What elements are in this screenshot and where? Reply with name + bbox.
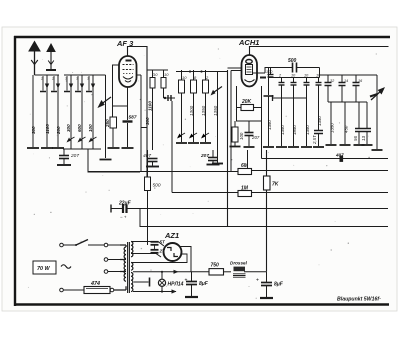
osc rail — [268, 77, 320, 79]
resistor 7K vertical — [264, 176, 279, 190]
grid wire vertical to ACH1 — [227, 70, 229, 227]
switch contact S1b stub — [51, 76, 57, 92]
AF3 top cap grid wire — [128, 47, 148, 178]
detector bus y160 — [262, 153, 389, 162]
svg-text:14: 14 — [344, 79, 348, 83]
smoothing cap 8uF first — [185, 272, 209, 297]
terminal tap top — [104, 243, 108, 247]
trimmer cap mid — [164, 95, 176, 101]
resistor box R IF2 — [188, 70, 206, 143]
capacitor 207 cathode — [244, 121, 260, 147]
svg-text:300: 300 — [66, 124, 71, 132]
svg-text:+: + — [185, 278, 188, 284]
svg-text:10: 10 — [153, 72, 158, 77]
link bracket left pair — [141, 127, 147, 129]
antenna arrow A1 — [29, 42, 40, 76]
osc section line with tuning arrow — [211, 72, 224, 164]
switch contact S2b stub — [75, 76, 81, 92]
capacitor 5T — [151, 240, 165, 245]
svg-text:22μF: 22μF — [118, 201, 132, 207]
bus y209 with 22uF — [111, 201, 388, 220]
AZ1 filament return loop — [131, 254, 187, 263]
svg-text:20K: 20K — [241, 99, 252, 105]
svg-text:207: 207 — [251, 135, 260, 140]
terminal tap mid2 — [104, 270, 108, 274]
svg-text:1350: 1350 — [305, 125, 310, 135]
link bar top right — [328, 101, 367, 103]
tube AF3 envelope — [119, 56, 137, 87]
ACH1 anode bar — [253, 72, 266, 74]
switch contact S1a stub — [40, 76, 46, 92]
svg-text:1850: 1850 — [292, 125, 297, 135]
HV wire to AZ1 plate 1 — [131, 242, 164, 247]
svg-text:+: + — [256, 278, 259, 284]
ACH1 top cap wire to top bus — [250, 47, 389, 56]
resistor box R IF1 — [176, 70, 194, 143]
cap 2,5T column — [312, 85, 324, 147]
resistor box R10b — [161, 70, 169, 98]
filament centre tap ground — [134, 278, 150, 287]
switch contact S2c stub — [86, 76, 92, 92]
frame border left — [14, 36, 16, 306]
transformer HV secondary — [131, 242, 133, 257]
HT line — [133, 271, 209, 273]
resistor 20K — [237, 86, 262, 159]
coil L3 200 with contact arrow — [52, 75, 64, 148]
wire from left block down to AVC bus — [88, 149, 140, 172]
coil 1350 c — [301, 98, 312, 147]
resistor R 250 — [105, 106, 120, 148]
coil L2 1100 with contact arrow — [41, 75, 53, 148]
svg-text:587: 587 — [129, 115, 137, 121]
transformer winding mid — [131, 263, 133, 271]
mains box 70W — [33, 261, 71, 274]
svg-text:2,5T: 2,5T — [312, 135, 317, 145]
capacitor C 207 left — [57, 149, 79, 165]
coil L6 100 with contact arrow — [88, 75, 97, 149]
IF transformer rail after AF3 — [147, 69, 168, 71]
svg-text:Blaupunkt 5W16f·: Blaupunkt 5W16f· — [337, 297, 381, 303]
svg-text:300: 300 — [31, 126, 36, 134]
svg-text:207: 207 — [200, 153, 209, 159]
svg-text:10: 10 — [164, 72, 169, 77]
svg-text:250: 250 — [105, 119, 110, 128]
resistor 500 vertical — [145, 150, 161, 245]
tuning line with arrow T4 — [99, 75, 112, 160]
svg-text:500: 500 — [288, 58, 297, 64]
power transformer core — [128, 242, 130, 293]
svg-text:7K: 7K — [272, 182, 279, 188]
mains switch — [64, 240, 105, 247]
svg-text:ACH1: ACH1 — [238, 38, 259, 47]
resistor 474 (barretter) — [64, 281, 111, 294]
scan speckle noise — [28, 48, 377, 298]
svg-text:100: 100 — [266, 70, 273, 74]
AF3 anode pin wire — [137, 74, 142, 76]
terminal tap mid1 — [104, 258, 108, 262]
svg-text:70 W: 70 W — [37, 266, 50, 272]
cap 13 column — [361, 102, 373, 145]
AZ1 cathode wire to HT — [181, 247, 192, 272]
mains terminal lower — [60, 288, 64, 292]
choke Drossel — [230, 261, 267, 278]
frame border bottom — [14, 303, 389, 306]
svg-text:5T: 5T — [160, 240, 165, 245]
wire to AVC corner — [171, 101, 173, 193]
trimmer line right — [372, 75, 383, 150]
IF rail 2 — [176, 71, 228, 73]
padder cap 16 — [353, 75, 364, 102]
cap line 1350 a — [263, 68, 274, 148]
svg-text:1100: 1100 — [148, 101, 153, 111]
svg-text:300: 300 — [145, 117, 150, 125]
capacitor C 407 — [143, 153, 159, 167]
tube ACH1 envelope — [242, 55, 258, 87]
long vertical B+ feed — [266, 150, 268, 176]
resistor box R10a — [150, 70, 158, 150]
bus y192 with resistor 1M — [172, 186, 388, 197]
capacitor C 587 — [122, 106, 137, 148]
wire rail band-switch section 2 — [64, 74, 106, 76]
svg-text:1100: 1100 — [45, 124, 50, 134]
capacitor C 207 mid — [200, 150, 220, 165]
svg-text:Drossel: Drossel — [230, 261, 248, 266]
svg-text:10: 10 — [182, 75, 187, 80]
tuning arrow right — [370, 88, 384, 100]
antenna arrow A2 (earth/aux) — [46, 44, 56, 70]
osc stub c10c — [316, 74, 322, 86]
coil 1350 b — [276, 98, 287, 147]
svg-text:8μF: 8μF — [199, 281, 209, 287]
svg-text:1350: 1350 — [280, 125, 285, 135]
osc stub c2 — [278, 74, 285, 99]
wire rail band-switch section 1 — [35, 74, 60, 76]
svg-text:207: 207 — [70, 153, 79, 159]
svg-text:200: 200 — [56, 126, 61, 135]
svg-text:56: 56 — [353, 136, 358, 141]
osc stub c10a — [291, 74, 297, 99]
bus y226 — [140, 209, 388, 227]
svg-text:− +: − + — [120, 215, 127, 220]
coil L1 300 — [27, 75, 39, 148]
coil 450 — [340, 102, 351, 145]
tube AZ1 envelope — [164, 243, 182, 261]
wire ACH1 anode to detector line — [230, 71, 232, 172]
wire to transformer primary top — [108, 244, 120, 246]
resistor 750 — [209, 263, 231, 276]
osc link bar — [273, 95, 307, 101]
ACH1 cathode network wire — [237, 108, 262, 122]
corner down to osc rail — [319, 68, 321, 78]
top-right rail — [320, 74, 378, 76]
mains terminal upper — [60, 243, 64, 247]
svg-text:750: 750 — [211, 263, 220, 269]
svg-text:1350: 1350 — [317, 116, 322, 126]
series capacitor 500 — [265, 58, 320, 73]
svg-text:100: 100 — [88, 124, 93, 132]
svg-text:8μF: 8μF — [274, 282, 284, 288]
padder cap 32 — [325, 75, 336, 102]
smoothing cap 8uF second — [256, 272, 284, 298]
osc stub c10b — [304, 74, 310, 99]
svg-text:600: 600 — [77, 124, 82, 132]
AF3 cathode pin wire — [113, 87, 128, 106]
AVC bus y171 with resistor 6M — [88, 163, 388, 175]
padder cap 14 — [339, 75, 349, 102]
svg-text:500: 500 — [153, 183, 161, 189]
svg-text:AZ1: AZ1 — [164, 231, 179, 240]
ACH1 grid wires left — [228, 67, 242, 69]
coil L5 600 with contact arrow — [77, 75, 86, 149]
heater rail bottom — [133, 270, 179, 294]
HV wire to AZ1 plate 2 — [131, 254, 161, 258]
resistor R100 vertical — [230, 121, 245, 147]
terminal tap bottom — [110, 288, 114, 292]
AF3 grid side wire — [113, 65, 120, 106]
transformer primary winding — [114, 245, 126, 290]
capacitor 2T — [151, 245, 165, 254]
AC sine symbol — [61, 265, 71, 269]
svg-text:450: 450 — [344, 125, 349, 133]
dial lamp — [158, 272, 187, 292]
svg-text:1350: 1350 — [267, 120, 272, 130]
vertical link x247 — [247, 150, 249, 169]
svg-text:13: 13 — [361, 136, 366, 141]
cap stub 100 — [266, 68, 274, 78]
coil 1350 d — [326, 102, 337, 145]
switch contact S2a stub — [64, 76, 70, 92]
cap 56 column — [353, 102, 365, 145]
resistor box R IF3 — [200, 70, 218, 143]
frame border top — [14, 36, 390, 38]
svg-text:100: 100 — [239, 132, 244, 140]
svg-text:HPЛ14: HPЛ14 — [168, 282, 184, 288]
svg-text:474: 474 — [90, 281, 100, 287]
coil 1850 — [288, 98, 299, 147]
transformer heater winding — [131, 273, 133, 292]
svg-text:1350: 1350 — [330, 123, 335, 133]
coil L4 300 with contact arrow — [66, 75, 75, 149]
coil line 300 mid — [141, 75, 150, 172]
